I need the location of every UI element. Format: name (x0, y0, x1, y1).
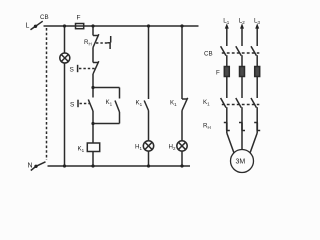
svg-text:L2: L2 (239, 18, 245, 26)
svg-text:H1: H1 (135, 144, 142, 152)
svg-text:CB: CB (40, 14, 49, 21)
svg-text:RH: RH (84, 39, 92, 47)
svg-text:RH: RH (203, 123, 211, 131)
svg-text:F: F (77, 15, 81, 22)
svg-text:L1: L1 (223, 18, 229, 26)
svg-text:S: S (70, 102, 75, 109)
svg-text:K1: K1 (106, 99, 113, 107)
svg-text:K1: K1 (136, 100, 143, 108)
svg-text:K1: K1 (203, 99, 210, 107)
svg-text:S: S (70, 67, 75, 74)
svg-text:N: N (28, 163, 33, 170)
svg-text:3M: 3M (236, 159, 246, 166)
svg-text:L3: L3 (254, 18, 260, 26)
svg-text:K1: K1 (78, 146, 85, 154)
svg-text:CB: CB (204, 51, 213, 58)
svg-text:H2: H2 (169, 144, 176, 152)
svg-text:F: F (216, 70, 220, 77)
svg-text:L: L (26, 23, 30, 30)
svg-text:K1: K1 (170, 100, 177, 108)
